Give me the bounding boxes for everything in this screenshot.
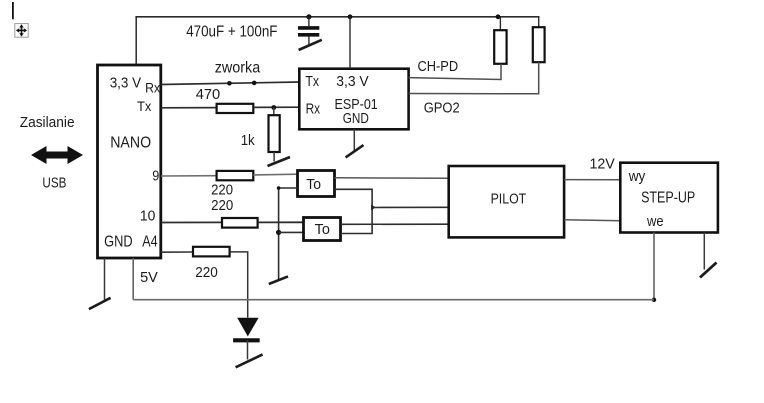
wire To1 to PILOT (top) — [335, 177, 449, 180]
node Tx/1k junction — [271, 105, 276, 110]
svg-text:1k: 1k — [241, 133, 256, 149]
svg-text:zworka: zworka — [215, 60, 261, 77]
move-handle icon artifact — [15, 24, 28, 38]
wire junction to To2 lower-left — [279, 231, 304, 233]
wire junction to PILOT (mid) — [372, 206, 449, 208]
ESP-01 box U2 — [299, 69, 408, 130]
svg-text:To: To — [315, 221, 330, 238]
svg-text:Zasilanie: Zasilanie — [20, 115, 75, 131]
node opto-gnd junction — [276, 230, 281, 235]
svg-text:220: 220 — [211, 182, 233, 198]
svg-text:STEP-UP: STEP-UP — [641, 189, 695, 206]
node ESP 3.3V junction — [348, 14, 353, 19]
svg-text:GND: GND — [343, 110, 369, 127]
wire STEP-UP we to 5V bus — [653, 233, 655, 300]
svg-text:PILOT: PILOT — [491, 190, 527, 207]
wire R220b to To2 — [258, 221, 304, 223]
wire R470 to ESP.Rx — [253, 106, 299, 108]
node To1 corner dot — [277, 186, 281, 190]
svg-text:A4: A4 — [142, 234, 158, 251]
wire R220c to diode — [230, 252, 248, 318]
ground (diode) — [236, 354, 263, 367]
resistor R220b — [222, 218, 258, 228]
svg-text:12V: 12V — [590, 156, 616, 172]
wire STEP-UP gnd stem — [703, 233, 705, 270]
optocoupler To1 — [298, 171, 335, 197]
svg-text:5V: 5V — [140, 270, 158, 286]
node zworka dot 1 — [227, 81, 232, 86]
node cap junction — [306, 14, 311, 19]
svg-text:10: 10 — [140, 208, 156, 224]
wire bus to resistor R4 — [499, 17, 501, 30]
wire To2 to PILOT (bottom) — [341, 223, 449, 225]
wire NANO.Tx to R470 — [161, 107, 217, 109]
ground (1k) — [268, 157, 291, 166]
wire PILOT to STEP-UP (wy) — [564, 179, 620, 181]
NANO box U1 — [98, 65, 161, 258]
svg-text:wy: wy — [628, 168, 646, 185]
svg-text:470: 470 — [196, 86, 221, 103]
svg-text:Tx: Tx — [305, 73, 319, 90]
wire NANO pin9 to R220a — [161, 175, 217, 177]
svg-text:NANO: NANO — [110, 135, 151, 152]
ground (STEP-UP) — [700, 263, 717, 278]
ground (NANO) — [89, 298, 111, 309]
wire R220a to To1 — [253, 173, 297, 176]
wire NANO GND stem — [104, 258, 106, 301]
top power bus wire — [135, 16, 539, 18]
wire ESP GND down — [353, 129, 355, 151]
wire To1 lower-right to vertical — [335, 189, 373, 233]
svg-text:9: 9 — [152, 169, 159, 185]
node zworka dot 2 — [252, 81, 257, 86]
wire 5V bus — [133, 299, 654, 301]
wire NANO A4 to R220c — [161, 251, 193, 253]
resistor R220c — [193, 247, 230, 257]
svg-text:3,3 V: 3,3 V — [336, 73, 368, 90]
svg-text:Rx: Rx — [306, 100, 321, 117]
wire ESP GPO2 to R5 — [409, 62, 539, 94]
svg-text:GPO2: GPO2 — [424, 99, 460, 116]
svg-text:CH-PD: CH-PD — [418, 58, 459, 75]
svg-text:we: we — [646, 213, 663, 230]
wire NANO 3.3V to bus — [135, 17, 137, 65]
capacitor C1 — [298, 17, 319, 47]
wire To1 lower-left to vertical — [279, 188, 298, 280]
wire PILOT to STEP-UP (lower) — [564, 220, 620, 221]
ground (opto) — [269, 276, 288, 284]
wire ESP 3.3V to bus — [349, 17, 351, 69]
resistor R1k — [269, 115, 280, 152]
wire junction to R1k — [273, 108, 275, 116]
resistor R4 (CH-PD pull-up) — [494, 30, 506, 64]
PILOT box U3 — [449, 166, 564, 237]
svg-text:Tx: Tx — [137, 98, 151, 114]
resistor R220a — [217, 171, 254, 180]
svg-text:Rx: Rx — [145, 79, 160, 95]
svg-text:GND: GND — [104, 234, 133, 251]
ground (capacitor) — [299, 40, 322, 50]
text cursor artifact — [12, 2, 14, 19]
wire NANO pin10 to R220b — [161, 221, 222, 223]
diode D1 — [233, 318, 260, 360]
svg-text:USB: USB — [42, 174, 66, 191]
node pullup junction — [496, 14, 501, 19]
wire NANO 5V stem — [132, 258, 134, 300]
wire bus to resistor R5 — [538, 17, 540, 27]
node we/bus junction — [652, 298, 656, 302]
svg-text:To: To — [306, 176, 321, 193]
svg-text:220: 220 — [211, 198, 233, 214]
optocoupler To2 — [304, 218, 341, 241]
node mid junction arrow — [371, 205, 376, 210]
ground (ESP) — [346, 145, 364, 157]
USB double arrow — [31, 146, 83, 164]
resistor R5 (GPIO2 pull-up) — [533, 27, 545, 62]
svg-text:3,3 V: 3,3 V — [110, 75, 141, 92]
STEP-UP box U4 — [620, 163, 718, 233]
resistor R470 — [217, 104, 254, 113]
svg-text:470uF + 100nF: 470uF + 100nF — [186, 23, 277, 40]
wire R1k to ground — [273, 152, 275, 162]
wire NANO.Rx to ESP.Tx (zworka) — [161, 82, 299, 85]
wire ESP CH-PD to R4 — [409, 64, 501, 80]
svg-text:220: 220 — [195, 265, 218, 281]
